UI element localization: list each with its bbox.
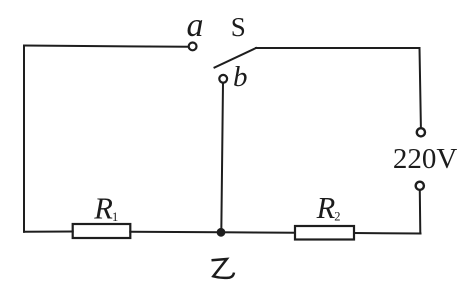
label 乙 (figure caption, drawn as path since CJK glyph unavailable) xyxy=(212,259,235,278)
svg-text:1: 1 xyxy=(112,210,118,224)
switch S blade xyxy=(215,48,257,68)
svg-text:2: 2 xyxy=(334,209,340,223)
wire bottom-right (R2 to right corner) xyxy=(354,232,421,235)
wire left vertical xyxy=(23,46,25,232)
svg-text:S: S xyxy=(231,12,246,42)
terminal circle upper (220V source) xyxy=(417,128,425,136)
wire top-right (switch blade tip to right corner) xyxy=(256,47,420,49)
wire right vertical upper xyxy=(420,48,421,127)
wire right vertical lower (bottom terminal of source to bottom rail) xyxy=(419,191,422,234)
resistor R2 xyxy=(295,226,354,240)
svg-text:b: b xyxy=(233,61,248,93)
switch terminal b (circle) xyxy=(219,75,227,83)
wire bottom-left (left corner to R1) xyxy=(24,231,73,233)
svg-text:a: a xyxy=(187,7,204,44)
wire from terminal b down to junction xyxy=(221,83,223,232)
svg-text:R: R xyxy=(93,191,113,225)
wire junction to R2 xyxy=(221,231,295,234)
svg-text:R: R xyxy=(316,191,336,225)
wire R1 to junction xyxy=(130,231,221,234)
switch terminal a (circle) xyxy=(189,43,197,51)
terminal circle lower (220V source) xyxy=(416,182,424,190)
svg-text:220V: 220V xyxy=(393,143,458,175)
junction node (dot) xyxy=(217,228,226,237)
wire top-left (left corner to switch terminal a) xyxy=(24,46,189,47)
resistor R1 xyxy=(73,224,131,238)
